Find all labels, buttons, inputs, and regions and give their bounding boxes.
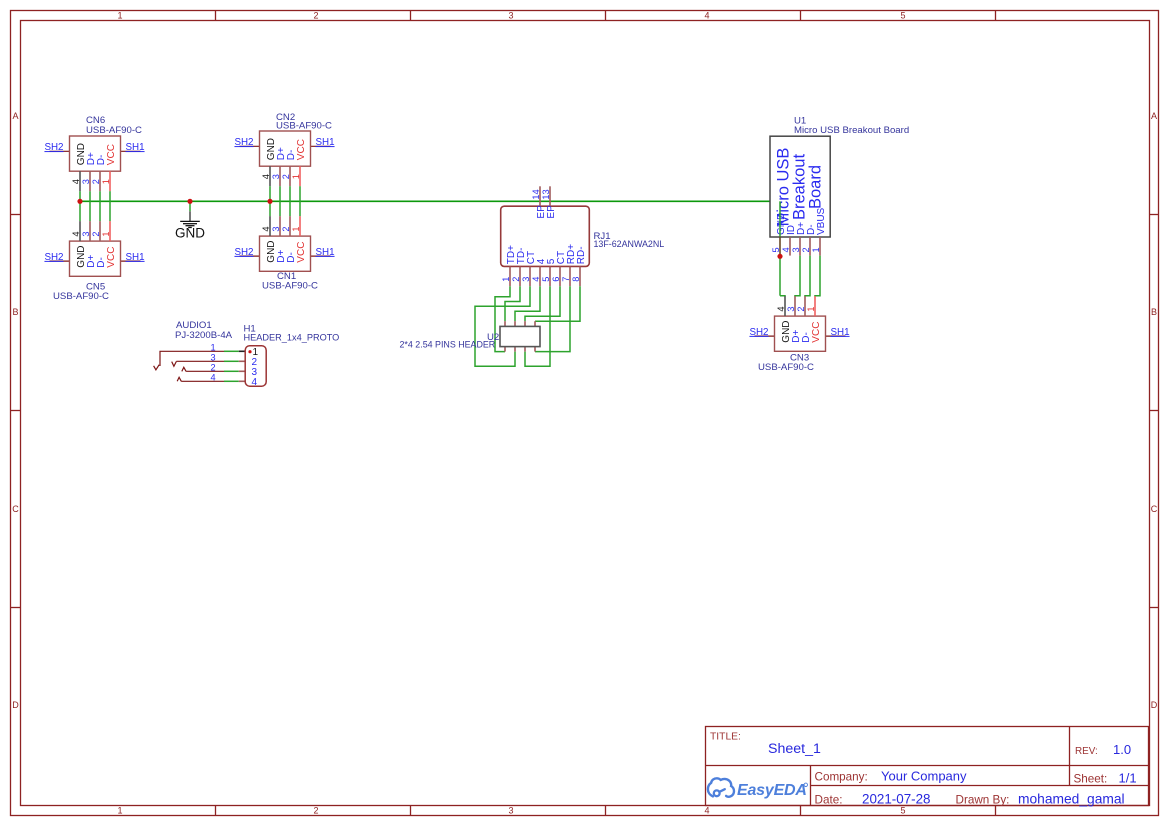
svg-text:14: 14 [531,189,541,199]
svg-text:4: 4 [704,806,709,816]
wire U1 VBUS to CN3 VCC [815,256,820,297]
svg-text:1: 1 [811,247,821,252]
svg-text:HEADER_1x4_PROTO: HEADER_1x4_PROTO [244,333,340,343]
svg-text:Company:: Company: [815,771,868,784]
title block [706,727,1149,806]
svg-text:VCC: VCC [296,242,307,263]
svg-text:5: 5 [541,277,551,282]
svg-text:5: 5 [900,11,905,21]
svg-text:7: 7 [561,277,571,282]
svg-text:USB-AF90-C: USB-AF90-C [276,120,332,131]
svg-text:USB-AF90-C: USB-AF90-C [758,362,814,373]
connector CN6 USB-AF90-C [44,115,144,191]
svg-text:2: 2 [281,174,291,179]
audio jack AUDIO1 PJ-3200B-4A [154,320,233,383]
svg-text:SH2: SH2 [234,137,253,148]
svg-text:1.0: 1.0 [1113,742,1131,757]
svg-text:1: 1 [291,174,301,179]
connector CN5 USB-AF90-C [44,221,144,302]
svg-text:5: 5 [900,806,905,816]
svg-text:4: 4 [704,11,709,21]
svg-text:TITLE:: TITLE: [710,732,741,743]
svg-text:SH1: SH1 [831,327,850,338]
svg-text:Micro USB Breakout Board: Micro USB Breakout Board [794,125,909,136]
svg-text:3: 3 [210,353,215,363]
svg-text:4: 4 [71,231,81,236]
wire CN6 pins to CN5 pins (vertical net segments) [80,191,110,221]
junction dot at CN6 GND pin on bus [77,199,82,204]
svg-text:2: 2 [796,306,806,311]
svg-text:4: 4 [210,373,215,383]
svg-text:RD-: RD- [576,246,587,264]
wire U1 D- to CN3 [805,256,810,297]
svg-text:5: 5 [771,247,781,252]
svg-text:4: 4 [71,179,81,184]
svg-text:Drawn By:: Drawn By: [956,793,1010,806]
svg-text:SH2: SH2 [44,142,63,153]
wire RJ1 pin1 to U2 pin (bottom row 1) [495,286,510,351]
svg-text:2: 2 [511,277,521,282]
wire GND net horizontal bus [80,200,780,202]
title block texts [710,732,1137,807]
ground symbol GND [175,199,205,241]
wire RJ1 pin6 to U2 [525,286,560,321]
connector CN2 USB-AF90-C [234,112,334,186]
svg-text:2: 2 [313,806,318,816]
svg-text:B: B [12,307,18,317]
ruler numbers bottom [117,806,905,816]
module U1 Micro USB Breakout Board [770,115,909,255]
svg-text:1: 1 [291,226,301,231]
svg-text:8: 8 [571,277,581,282]
svg-text:3: 3 [81,231,91,236]
svg-text:1: 1 [501,277,511,282]
ruler numbers top [117,11,905,21]
svg-text:VCC: VCC [811,322,822,343]
svg-text:SH1: SH1 [316,247,335,258]
svg-text:1: 1 [117,806,122,816]
svg-text:Board: Board [807,165,825,209]
svg-text:EP: EP [546,205,557,219]
svg-text:VCC: VCC [106,247,117,268]
svg-text:4: 4 [781,247,791,252]
svg-text:VBUS: VBUS [816,207,827,235]
svg-text:REV:: REV: [1075,746,1098,757]
svg-text:B: B [1151,307,1157,317]
svg-text:Sheet_1: Sheet_1 [768,741,821,757]
svg-text:2021-07-28: 2021-07-28 [862,791,931,806]
svg-text:2: 2 [313,11,318,21]
svg-text:VCC: VCC [296,139,307,160]
junction dot at CN2 GND pin on bus [267,199,272,204]
svg-text:3: 3 [521,277,531,282]
svg-text:6: 6 [551,277,561,282]
svg-text:USB-AF90-C: USB-AF90-C [53,291,109,302]
svg-text:2: 2 [281,226,291,231]
svg-text:13: 13 [541,189,551,199]
wire RJ1 pin4 to U2 [515,286,540,321]
connector CN1 USB-AF90-C [234,216,334,291]
svg-text:2: 2 [210,363,215,373]
header U2 2*4 2.54 PINS HEADER [400,321,541,351]
ruler letters right [1151,111,1158,710]
svg-text:USB-AF90-C: USB-AF90-C [262,280,318,291]
wire CN2 pins to CN1 pins (vertical net segments) [270,186,300,216]
svg-text:D: D [12,700,19,710]
EasyEDA logo [708,778,734,796]
svg-text:1: 1 [210,343,215,353]
svg-text:mohamed_gamal: mohamed_gamal [1018,791,1125,806]
wire RJ1 pin5 to U2 [525,286,550,366]
svg-text:3: 3 [508,11,513,21]
svg-text:USB-AF90-C: USB-AF90-C [86,125,142,136]
svg-text:2*4 2.54 PINS HEADER: 2*4 2.54 PINS HEADER [400,340,496,350]
svg-text:4: 4 [261,174,271,179]
svg-text:D: D [1151,700,1158,710]
wire U1 D+ to CN3 [795,256,800,297]
svg-text:SH2: SH2 [234,247,253,258]
connector CN3 USB-AF90-C [749,296,849,373]
svg-text:13F-62ANWA2NL: 13F-62ANWA2NL [594,239,665,249]
svg-text:SH1: SH1 [316,137,335,148]
svg-text:SH2: SH2 [44,252,63,263]
svg-text:SH1: SH1 [126,142,145,153]
svg-text:3: 3 [786,306,796,311]
svg-text:SH1: SH1 [126,252,145,263]
header H1 HEADER_1x4_PROTO [239,323,340,387]
svg-text:GND: GND [175,226,205,241]
svg-text:4: 4 [776,306,786,311]
svg-text:Your Company: Your Company [881,769,967,784]
svg-text:3: 3 [81,179,91,184]
svg-text:3: 3 [791,247,801,252]
svg-text:3: 3 [271,174,281,179]
svg-text:4: 4 [531,277,541,282]
svg-text:A: A [1151,111,1157,121]
svg-text:3: 3 [271,226,281,231]
svg-text:1: 1 [101,231,111,236]
svg-text:A: A [12,111,18,121]
svg-text:Sheet:: Sheet: [1074,773,1108,786]
svg-text:2: 2 [91,179,101,184]
svg-text:Date:: Date: [815,793,843,806]
svg-text:4: 4 [252,377,258,388]
wire RJ1 pin2 to U2 [505,286,520,321]
wire RJ1 pin3 to U2 [475,286,530,366]
svg-text:PJ-3200B-4A: PJ-3200B-4A [175,330,233,341]
svg-text:4: 4 [261,226,271,231]
svg-text:C: C [1151,504,1158,514]
wire RJ1 pin8 to U2 [535,286,580,321]
ruler letters left [12,111,19,710]
svg-text:C: C [12,504,19,514]
wire GND bus into U1 pin5 (through body) with junction [779,201,781,236]
svg-text:EasyEDA: EasyEDA [737,782,807,799]
svg-text:1: 1 [117,11,122,21]
svg-text:1: 1 [806,306,816,311]
svg-text:SH2: SH2 [749,327,768,338]
wire RJ1 pin7 to U2 [535,286,570,351]
connector RJ1 13F-62ANWA2NL [501,186,665,286]
svg-text:VCC: VCC [106,144,117,165]
wire AUDIO1 to H1 (green segments) [224,351,239,381]
svg-text:2: 2 [91,231,101,236]
svg-text:3: 3 [508,806,513,816]
svg-text:1: 1 [101,179,111,184]
svg-text:2: 2 [801,247,811,252]
svg-text:1/1: 1/1 [1119,771,1137,786]
